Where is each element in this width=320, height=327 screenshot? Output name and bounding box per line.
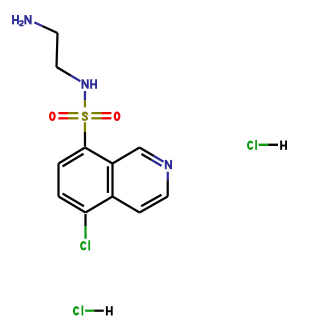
ring double bond C3=C4 main line: [140, 197, 168, 213]
ring double bond C6=C5 inner line: [63, 194, 84, 207]
ring double bond C8=C7 main line: [59, 148, 86, 164]
HCl right: Cl label: [248, 140, 256, 150]
sulfonamide label NH: [82, 79, 96, 88]
ring bond C7-C6: [57, 164, 59, 197]
HCl right: bond Cl-H: [259, 144, 269, 146]
HCl right: H label: [281, 141, 286, 150]
bond C5-Cl: [84, 214, 86, 226]
chlorine label Cl: [81, 240, 89, 250]
double bond S=O right upper line: [91, 112, 101, 114]
bond CH2-NH: [57, 67, 71, 76]
fusion double bond C8a=C4a inner line: [107, 166, 109, 193]
oxygen label O right: [115, 113, 120, 120]
oxygen label O left: [50, 113, 55, 120]
HCl bottom: bond Cl-H: [85, 310, 94, 312]
ring bond N2-C3: [167, 172, 169, 181]
ring double bond C8=C7 inner line: [63, 154, 84, 167]
double bond S=O right lower line: [91, 117, 101, 119]
ring bond C8-C8a: [85, 148, 113, 164]
ring double bond C1=N2 inner line: [141, 154, 151, 160]
ring double bond C1=N2 main line: [140, 148, 154, 156]
bond N(amine)-CH2: [34, 22, 42, 26]
double bond S=O left lower line: [58, 117, 68, 119]
amine label H2N: [13, 15, 31, 25]
sulfonyl S label: [83, 113, 87, 120]
double bond S=O left upper line: [58, 112, 68, 114]
ring bond C8a-C1: [113, 148, 140, 164]
fusion double bond C8a=C4a main line: [111, 164, 113, 197]
bond NH-S: [84, 91, 86, 100]
HCl bottom: H label: [107, 306, 112, 315]
bond S-C8: [84, 122, 86, 132]
ring bond C5-C4a: [86, 197, 113, 213]
bond CH2-CH2: [57, 33, 58, 67]
HCl bottom: Cl label: [74, 305, 82, 315]
isoquinoline N label: [166, 160, 171, 169]
ring double bond C6=C5 main line: [59, 197, 86, 213]
ring double bond C3=C4 inner line: [141, 195, 161, 207]
ring bond C4-C4a: [113, 197, 140, 213]
